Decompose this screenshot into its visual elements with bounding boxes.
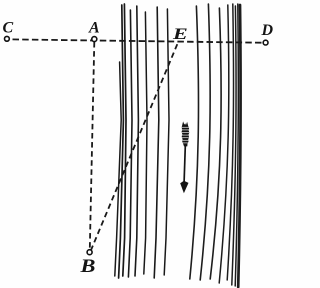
svg-text:D: D — [261, 22, 274, 39]
svg-text:A: A — [88, 20, 100, 37]
svg-text:E: E — [172, 26, 188, 43]
svg-text:B: B — [79, 257, 95, 277]
svg-text:C: C — [3, 20, 14, 37]
